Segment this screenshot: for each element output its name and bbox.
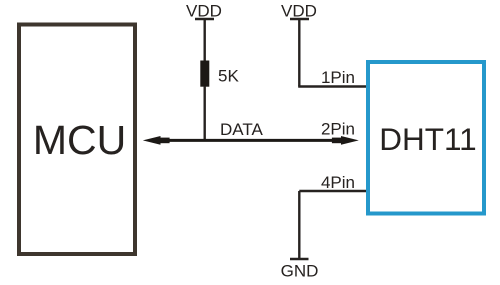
wire VDD2 down — [298, 19, 300, 87]
arrowhead right — [341, 136, 359, 145]
svg-text:4Pin: 4Pin — [321, 173, 355, 192]
svg-text:DATA: DATA — [220, 120, 263, 139]
wire pin4 down to ground — [298, 191, 300, 259]
svg-text:VDD: VDD — [186, 2, 222, 21]
wire to DHT11 pin 1 — [298, 85, 366, 87]
arrowhead left — [143, 136, 161, 145]
svg-text:2Pin: 2Pin — [321, 120, 355, 139]
DHT11 box U2 — [368, 62, 484, 214]
wire VDD1 to resistor — [203, 19, 205, 62]
DATA bidirectional arrow wire — [160, 139, 342, 142]
svg-text:GND: GND — [281, 262, 319, 281]
wire resistor to DATA line — [203, 86, 205, 140]
svg-text:1Pin: 1Pin — [321, 68, 355, 87]
wire DHT11 pin 4 — [299, 190, 366, 192]
ground — [290, 258, 309, 260]
MCU box U1 — [19, 25, 135, 255]
svg-text:VDD: VDD — [281, 2, 317, 21]
resistor R1 5K — [200, 61, 209, 87]
svg-text:5K: 5K — [218, 67, 239, 86]
svg-text:DHT11: DHT11 — [379, 121, 476, 157]
svg-text:MCU: MCU — [33, 117, 126, 163]
